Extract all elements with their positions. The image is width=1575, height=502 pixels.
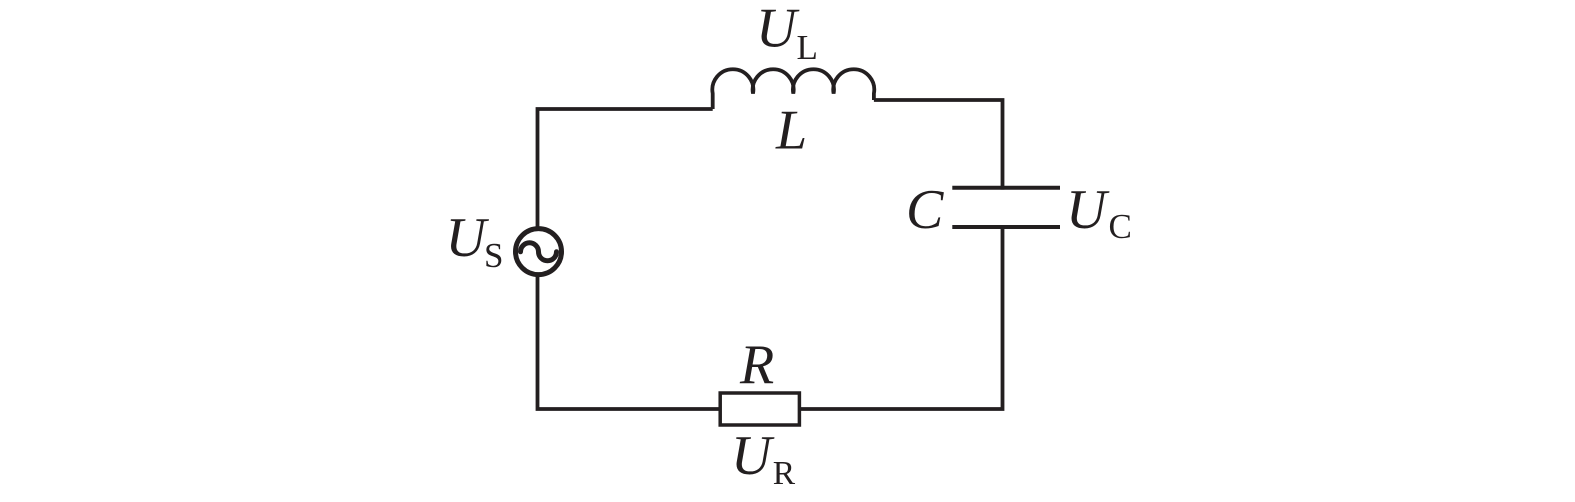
svg-text:U: U: [446, 207, 490, 269]
ac source sine wave: [521, 243, 557, 261]
wire left vertical lower + bottom-left horizontal: [538, 277, 721, 409]
label U_L: [756, 0, 818, 67]
wire top-left horizontal + left vertical upper: [538, 109, 713, 227]
svg-text:L: L: [797, 28, 818, 67]
label C: [906, 179, 944, 241]
svg-text:C: C: [1109, 207, 1132, 246]
svg-text:U: U: [731, 425, 775, 487]
label U_C: [1066, 179, 1132, 246]
wire top-right horizontal + right vertical upper: [874, 100, 1003, 190]
capacitor C bottom plate: [952, 225, 1060, 229]
svg-text:U: U: [756, 0, 800, 60]
inductor L: [712, 69, 874, 109]
svg-text:R: R: [773, 455, 796, 492]
ac source U_S circle: [516, 229, 562, 275]
svg-text:U: U: [1066, 179, 1110, 241]
label L: [775, 100, 807, 162]
label U_S: [446, 207, 504, 275]
resistor R body: [720, 393, 799, 425]
wire right vertical lower + bottom-right horizontal: [800, 227, 1003, 409]
svg-text:R: R: [739, 334, 774, 396]
svg-text:C: C: [906, 179, 944, 241]
svg-text:S: S: [484, 236, 503, 275]
svg-text:L: L: [775, 100, 807, 162]
label R: [739, 334, 774, 396]
capacitor C top plate: [952, 186, 1060, 190]
label U_R: [731, 425, 796, 492]
